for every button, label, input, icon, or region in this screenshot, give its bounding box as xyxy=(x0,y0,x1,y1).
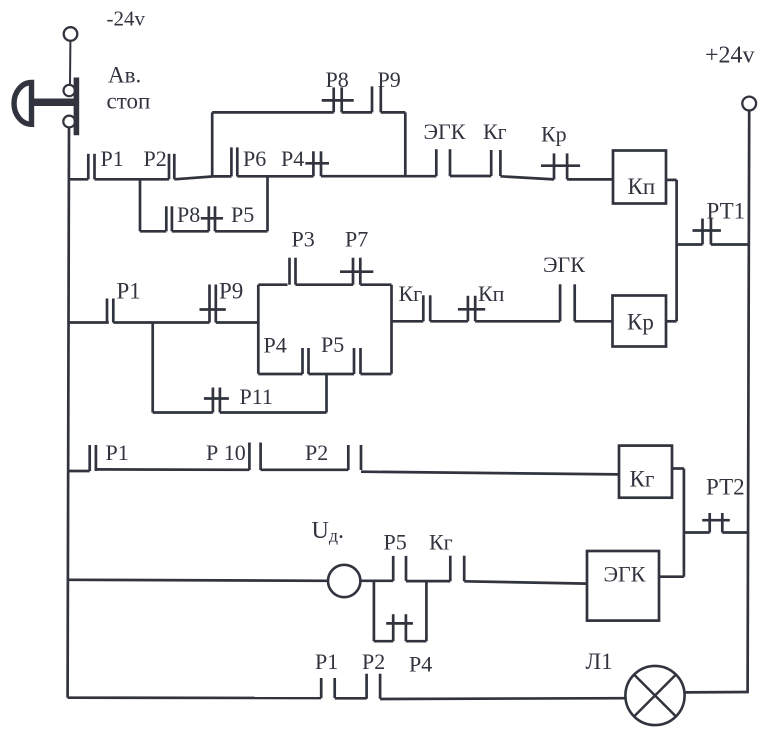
svg-text:Р1: Р1 xyxy=(315,649,338,674)
contact Р2 bottom xyxy=(367,674,381,699)
contact P8 top (NC) xyxy=(322,87,354,112)
relay coil Кг box xyxy=(619,446,672,498)
contact P4 bridge xyxy=(303,348,309,374)
rung1 wire P4 to ЭГК xyxy=(321,175,436,178)
rung2 wire ЭГК to coil Кр xyxy=(575,320,613,323)
vertical bus Кг-ЭГК outputs xyxy=(683,469,686,577)
contact P1 rung2 xyxy=(107,299,113,323)
contact Кг rung2 xyxy=(423,295,430,321)
sensor Uд circle xyxy=(328,565,360,597)
svg-text:P1: P1 xyxy=(117,279,141,304)
svg-text:РТ2: РТ2 xyxy=(706,475,745,500)
relay coil Кр box xyxy=(613,296,667,347)
svg-text:P9: P9 xyxy=(219,279,243,304)
svg-text:Кг: Кг xyxy=(429,530,453,555)
svg-text:ЭГК: ЭГК xyxy=(424,119,466,144)
rung2 wire P9 to bridge xyxy=(216,321,258,324)
svg-text:P6: P6 xyxy=(243,146,266,171)
svg-text:P1: P1 xyxy=(106,440,129,465)
lower branch wire to P8 xyxy=(140,230,166,233)
bridge top wire P3-P7 xyxy=(296,283,354,286)
contact Р4 branch (NC) xyxy=(386,614,413,641)
wire РТ2 to right rail xyxy=(722,531,748,534)
bridge top wire left xyxy=(258,283,287,286)
rung1 wire Кр to coil Кп xyxy=(567,178,613,181)
svg-text:стоп: стоп xyxy=(107,89,151,114)
lamp Л1 circle xyxy=(625,666,684,725)
contact P1 rung3 xyxy=(90,445,96,471)
svg-text:P3: P3 xyxy=(292,227,315,252)
contact P3 xyxy=(290,258,296,285)
svg-text:Кп: Кп xyxy=(478,281,505,306)
valve coil ЭГК box xyxy=(587,551,659,621)
top branch wire P9 to corner xyxy=(381,111,406,114)
bridge bottom wire P4-P5 xyxy=(309,373,355,376)
bridge left vertical xyxy=(257,285,260,374)
bottom wire P1-P2 xyxy=(335,697,367,700)
wire bus to РТ2 xyxy=(684,531,710,534)
wire Кр output xyxy=(666,320,677,323)
contact ЭГК rung2 xyxy=(560,284,575,321)
P4 branch wire right xyxy=(406,640,427,643)
rung1 wire P6-P4 xyxy=(237,175,313,178)
contact РТ1 (NC) xyxy=(693,219,721,245)
bottom wire P2 to lamp xyxy=(380,697,625,700)
rung2 branch down at node C xyxy=(151,323,154,413)
wire Кг output xyxy=(672,467,684,470)
rung4 wire rail to sensor xyxy=(68,580,328,581)
svg-text:Л1: Л1 xyxy=(586,649,613,674)
svg-text:P4: P4 xyxy=(281,146,304,171)
rung2 wire Кп-ЭГК xyxy=(475,320,560,323)
contact Кг rung1 xyxy=(491,150,500,176)
rung4 branch down at node D xyxy=(373,581,376,642)
branch wire down at node B xyxy=(139,179,142,231)
svg-text:P5: P5 xyxy=(231,202,254,227)
svg-text:ЭГК: ЭГК xyxy=(604,562,646,587)
rung1 wire ЭГК-Кг xyxy=(450,175,491,178)
bridge bottom wire P5 to right xyxy=(361,373,392,376)
P4 branch wire left xyxy=(374,640,393,643)
contact Кр rung1 (NC) xyxy=(541,153,580,179)
svg-text:Р5: Р5 xyxy=(384,530,407,555)
svg-text:Р4: Р4 xyxy=(409,652,432,677)
svg-text:P4: P4 xyxy=(264,333,287,358)
rung3 wire P2 to coil Кг xyxy=(361,472,619,475)
contact Р1 bottom xyxy=(321,678,335,698)
svg-text:P2: P2 xyxy=(144,146,167,171)
svg-text:P5: P5 xyxy=(321,332,344,357)
svg-text:РТ1: РТ1 xyxy=(707,199,746,224)
rung4 wire Кг to coil ЭГК xyxy=(464,581,587,583)
pushbutton movable contact bar xyxy=(74,78,80,136)
bridge right vertical xyxy=(390,285,393,374)
branch wire up at node A xyxy=(211,112,214,176)
pushbutton Ав.стоп contact circle top xyxy=(63,85,74,96)
rung1 wire to P6 xyxy=(212,175,231,178)
svg-text:-24v: -24v xyxy=(107,7,146,31)
rung3 wire P1 to P10 xyxy=(96,468,250,471)
rung4 wire P5-Кг xyxy=(406,580,450,583)
contact Кп rung2 (NC) xyxy=(458,296,485,322)
P11 branch wire left xyxy=(153,411,213,414)
top branch wire down to rung1 xyxy=(404,112,407,176)
bridge top wire P7 to right xyxy=(360,283,391,286)
contact P8 lower xyxy=(166,206,172,231)
rung1 wire P1-P2 xyxy=(95,178,170,181)
contact P5 bridge xyxy=(354,348,361,374)
lower branch wire P5 to riser xyxy=(215,230,268,233)
relay coil Кп box xyxy=(613,151,666,204)
wire bus to РТ1 xyxy=(677,243,703,246)
rung4 wire sensor to P5 xyxy=(360,579,393,582)
rung3 wire P10 to P2 xyxy=(261,468,349,471)
bridge bottom wire left xyxy=(258,373,302,376)
wire Кп output xyxy=(666,179,677,182)
svg-text:P7: P7 xyxy=(345,227,368,252)
contact P1 rung1 xyxy=(88,154,94,180)
contact Р2 rung3 xyxy=(348,445,361,470)
top branch wire to P8 xyxy=(212,111,334,114)
contact P5 lower (NC) xyxy=(201,206,223,231)
wire РТ1 to right rail xyxy=(711,243,748,246)
svg-text:Кп: Кп xyxy=(628,174,656,199)
contact P2 rung1 xyxy=(169,154,174,180)
svg-text:Кг: Кг xyxy=(399,281,423,306)
P11 branch wire right xyxy=(220,411,327,414)
lamp Л1 cross stroke 1 xyxy=(634,675,676,717)
wire terminal to button xyxy=(69,40,71,85)
contact ЭГК rung1 xyxy=(436,149,450,176)
contact P7 (NC) xyxy=(340,258,373,285)
svg-text:Кг: Кг xyxy=(630,467,655,492)
contact P11 (NC) xyxy=(204,388,229,413)
wire ЭГК output xyxy=(659,575,684,578)
svg-text:+24v: +24v xyxy=(705,43,755,69)
rung3 wire rail to P1 xyxy=(68,470,90,473)
contact P6 xyxy=(231,147,237,176)
rung2 wire bridge to Кг xyxy=(392,320,424,323)
top branch wire P8-P9 xyxy=(342,111,372,114)
contact P9 top xyxy=(372,86,381,112)
rung1 wire P2 to P6 xyxy=(174,177,212,180)
pushbutton stem xyxy=(30,99,75,107)
svg-text:P1: P1 xyxy=(101,146,124,171)
lower branch riser to rung1 xyxy=(266,176,269,231)
left rail xyxy=(68,127,69,697)
rung2 wire rail to P1 xyxy=(68,321,109,324)
svg-text:Р11: Р11 xyxy=(240,384,273,409)
svg-text:P8: P8 xyxy=(326,67,349,92)
P11 branch riser to bridge xyxy=(325,374,328,413)
terminal +24v xyxy=(742,97,756,111)
svg-text:P8: P8 xyxy=(177,202,200,227)
right rail xyxy=(748,110,750,692)
rung2 wire Кг-Кп xyxy=(430,320,468,323)
contact Кг rung4 xyxy=(450,556,464,582)
contact Р10 xyxy=(249,443,260,471)
svg-text:Р2: Р2 xyxy=(305,440,328,465)
wire lamp to right rail xyxy=(685,691,749,694)
svg-text:Uд.: Uд. xyxy=(312,518,345,546)
svg-text:Р 10: Р 10 xyxy=(206,440,246,465)
contact Р5 rung4 xyxy=(393,556,406,581)
rung1 wire Кг-Кр xyxy=(500,176,554,179)
svg-text:Ав.: Ав. xyxy=(108,63,141,88)
svg-text:ЭГК: ЭГК xyxy=(543,252,585,277)
contact P4 rung1 (NC) xyxy=(305,151,329,176)
vertical bus Кп-Кр outputs xyxy=(675,180,678,321)
svg-text:Кр: Кр xyxy=(627,310,654,335)
contact P9 rung2 (NC) xyxy=(200,285,226,323)
svg-text:Кг: Кг xyxy=(483,119,507,144)
lower branch wire P8-P5 xyxy=(172,230,209,233)
rung2 wire P1 to P9 xyxy=(113,321,209,324)
contact РТ2 (NC) xyxy=(702,513,730,533)
pushbutton mushroom cap xyxy=(14,83,32,125)
terminal -24v xyxy=(64,27,78,41)
lamp Л1 cross stroke 2 xyxy=(634,675,676,717)
svg-text:P9: P9 xyxy=(378,67,401,92)
svg-text:Р2: Р2 xyxy=(362,649,385,674)
rung1 wire rail to P1 xyxy=(68,178,88,181)
pushbutton Ав.стоп contact circle bottom xyxy=(63,116,75,128)
bottom rung wire rail to P1 xyxy=(68,696,322,699)
svg-text:Кр: Кр xyxy=(541,122,567,147)
P4 branch riser xyxy=(425,581,428,641)
